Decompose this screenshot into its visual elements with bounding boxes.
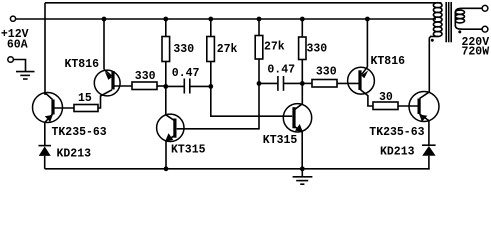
wire rail to 27k right bbox=[258, 19, 260, 36]
transistor TK235-63 left bbox=[33, 93, 63, 123]
transistor KT315 right bbox=[283, 83, 311, 168]
resistor 330 horizontal left bbox=[132, 82, 157, 90]
svg-text:KT315: KT315 bbox=[263, 134, 298, 147]
terminal ground input bbox=[8, 57, 14, 63]
capacitor 0.47 right bbox=[259, 76, 302, 91]
node rail junction KT816 left emitter bbox=[102, 17, 107, 22]
wire KT816 right emitter bbox=[366, 19, 368, 67]
svg-text:330: 330 bbox=[173, 43, 194, 56]
transformer phase dot secondary bbox=[458, 30, 461, 33]
transformer phase dot primary bbox=[431, 39, 434, 42]
svg-text:0.47: 0.47 bbox=[267, 63, 295, 76]
wire diode to bottom rail bbox=[44, 156, 46, 169]
svg-text:TK235-63: TK235-63 bbox=[369, 126, 424, 139]
svg-text:330: 330 bbox=[135, 70, 156, 83]
node rail junction KT816 right emitter bbox=[365, 17, 370, 22]
diode KD213 left bbox=[39, 146, 52, 156]
resistor 30 bbox=[373, 102, 398, 110]
wire bottom rail bbox=[45, 168, 430, 170]
transformer core bbox=[446, 2, 451, 42]
wire +12V rail bbox=[16, 18, 436, 20]
wire rail to 330 vertical bbox=[165, 19, 167, 37]
svg-text:330: 330 bbox=[316, 66, 337, 79]
wire top line to transformer primary top bbox=[45, 2, 442, 4]
ground input symbol bbox=[16, 72, 35, 79]
svg-text:30: 30 bbox=[379, 91, 393, 104]
resistor 27k right bbox=[255, 36, 263, 60]
wire TK235-63 emitter to diode bbox=[44, 122, 46, 145]
wire secondary bottom lead bbox=[462, 28, 483, 30]
wire 330 vertical to node A bbox=[165, 62, 167, 87]
wire resistor 15 to TK235-63 base bbox=[55, 107, 75, 109]
wire TK235-63 right emitter to diode bbox=[428, 120, 430, 145]
svg-text:27k: 27k bbox=[217, 43, 238, 56]
svg-text:KT816: KT816 bbox=[371, 55, 406, 68]
svg-text:KD213: KD213 bbox=[380, 146, 415, 159]
svg-text:TK235-63: TK235-63 bbox=[52, 126, 107, 139]
svg-text:330: 330 bbox=[307, 43, 328, 56]
resistor 330 horizontal right bbox=[312, 80, 337, 88]
svg-text:0.47: 0.47 bbox=[172, 67, 200, 80]
wire secondary top lead bbox=[462, 7, 483, 9]
svg-text:KT816: KT816 bbox=[65, 58, 100, 71]
wire TK235-63 right collector to transformer bbox=[429, 36, 438, 92]
wire KT816 left emitter bbox=[103, 19, 105, 69]
capacitor 0.47 left bbox=[166, 79, 211, 94]
node rail junction 330 right bbox=[300, 17, 305, 22]
transistor TK235-63 right bbox=[409, 92, 439, 122]
terminal output bottom bbox=[482, 26, 488, 32]
transistor KT816 left bbox=[94, 69, 132, 108]
wire rail to 27k bbox=[210, 19, 212, 37]
node rail junction 27k right bbox=[257, 17, 262, 22]
svg-text:KD213: KD213 bbox=[57, 147, 92, 160]
resistor 330 vertical left bbox=[162, 37, 170, 62]
wire 27k right to node C bbox=[258, 59, 260, 83]
wire resistor 330 to KT816 right base bbox=[337, 82, 359, 84]
wire 27k to node B bbox=[210, 62, 212, 87]
diode KD213 right bbox=[422, 145, 436, 156]
svg-text:27k: 27k bbox=[264, 41, 285, 54]
resistor 15 bbox=[74, 105, 98, 112]
wire diode right to bottom rail bbox=[428, 156, 430, 170]
transformer primary winding bbox=[433, 3, 442, 37]
terminal +12V input bbox=[10, 16, 15, 21]
resistor 330 vertical right bbox=[299, 37, 306, 60]
svg-text:KT315: KT315 bbox=[171, 144, 206, 157]
wire resistor 330 to node A bbox=[157, 85, 166, 87]
node A junction bbox=[163, 84, 168, 89]
resistor 27k left bbox=[207, 37, 215, 62]
wire left vertical to TK235-63 collector bbox=[44, 3, 46, 95]
wire 330 right to node D bbox=[301, 60, 303, 84]
node B junction bbox=[208, 84, 213, 89]
wire cross coupling node B to KT315 right base bbox=[211, 86, 292, 116]
terminal output top bbox=[482, 5, 488, 11]
svg-text:60A: 60A bbox=[7, 39, 28, 52]
svg-text:720W: 720W bbox=[462, 46, 490, 59]
wire cross coupling node C to KT315 left base bbox=[177, 83, 259, 128]
transformer secondary winding bbox=[455, 8, 464, 29]
node bottom rail ground junction bbox=[300, 166, 305, 171]
wire rail to 330 right bbox=[301, 19, 303, 37]
node rail junction 27k left bbox=[208, 17, 213, 22]
node D junction bbox=[300, 81, 305, 86]
transistor KT315 left bbox=[157, 86, 184, 168]
svg-text:15: 15 bbox=[78, 92, 92, 105]
wire terminal to ground bbox=[13, 60, 25, 72]
ground symbol bottom bbox=[293, 169, 313, 184]
node C junction bbox=[257, 81, 262, 86]
transistor KT816 right bbox=[348, 67, 375, 106]
node rail junction 330 vertical bbox=[163, 17, 168, 22]
node bottom rail junction KT315 left emitter bbox=[164, 166, 169, 171]
wire node D to resistor 330 bbox=[302, 82, 312, 84]
wire resistor 30 to TK235-63 right base bbox=[398, 105, 418, 107]
